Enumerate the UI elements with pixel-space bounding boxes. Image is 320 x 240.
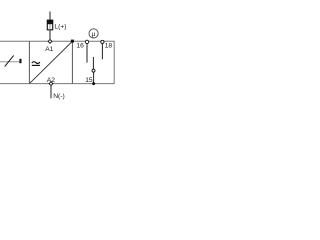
svg-text:µ: µ: [92, 31, 96, 38]
svg-text:L(+): L(+): [54, 23, 66, 30]
svg-text:15: 15: [85, 77, 93, 84]
svg-text:A1: A1: [45, 46, 53, 53]
svg-text:N(-): N(-): [53, 93, 65, 100]
svg-text:16: 16: [76, 43, 84, 50]
svg-text:18: 18: [105, 43, 113, 50]
